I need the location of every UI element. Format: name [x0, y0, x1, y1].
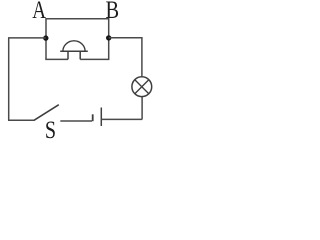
wire bottom right (battery to corner): [101, 118, 142, 120]
wire top (A to B): [45, 18, 109, 20]
svg-text:A: A: [32, 0, 46, 24]
lamp cross diagonal 1: [135, 80, 149, 94]
wire B to right rail: [109, 37, 143, 39]
lamp cross diagonal 2: [135, 80, 149, 94]
switch S blade (open): [34, 105, 59, 121]
wire left horizontal (A to left rail): [8, 37, 46, 39]
bell dome: [63, 41, 85, 51]
svg-text:B: B: [106, 0, 120, 24]
switch S fixed contact stub: [60, 120, 92, 122]
wire inner bottom right segment: [80, 58, 109, 60]
wire left inner vertical (A branch): [45, 19, 47, 60]
bell right leg: [79, 51, 81, 59]
svg-text:S: S: [45, 117, 56, 143]
bell left leg: [67, 51, 69, 59]
bell base line: [60, 50, 88, 52]
wire right inner vertical (B branch): [108, 19, 110, 60]
lamp circle: [132, 77, 152, 97]
battery tall plate (positive): [100, 108, 102, 127]
junction dot B: [106, 35, 111, 40]
wire bottom left (rail to switch): [8, 119, 34, 121]
wire right vertical lower (corner to lamp): [141, 97, 143, 120]
battery short plate (negative): [92, 114, 94, 121]
wire right vertical upper (lamp to B wire): [141, 38, 143, 77]
junction dot A: [43, 35, 48, 40]
wire inner bottom left segment: [45, 58, 68, 60]
wire left vertical rail: [8, 38, 10, 120]
